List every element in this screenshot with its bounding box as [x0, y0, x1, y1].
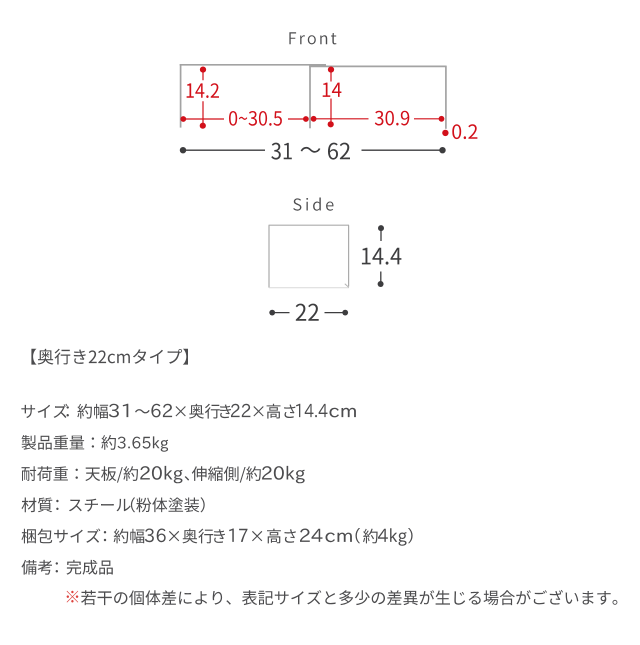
dimension 0~30.5 line [183, 118, 306, 120]
wave dash [301, 147, 321, 153]
title Front [289, 32, 336, 44]
note asterisk [67, 591, 79, 603]
spec load [22, 466, 139, 482]
dimension text 0.2 [452, 124, 477, 139]
side outline left edge [268, 225, 270, 287]
side outline bottom-right tick [345, 284, 349, 288]
dimension 14.2 leader line [202, 70, 204, 126]
dimension 0.2 dot [442, 130, 448, 136]
dimension 14.4 leader line [380, 228, 382, 284]
spec material [22, 498, 53, 513]
spec note [22, 560, 53, 575]
side outline right edge [348, 225, 350, 286]
dimension text 14.2 [187, 83, 219, 98]
front outline: middle leg [309, 66, 311, 129]
dimension text 22 [296, 304, 319, 321]
overall width dimension line 31~62 [183, 149, 443, 151]
spec weight [22, 435, 116, 450]
dimension 22 end dots [269, 310, 275, 316]
side outline faint bottom edge [269, 287, 349, 289]
dimension text 62 [328, 143, 350, 160]
dimension 22 line [272, 312, 345, 314]
spec package [22, 529, 101, 544]
dimension text 31 [271, 143, 292, 160]
front outline: right shelf top edge [309, 65, 446, 67]
note text [81, 590, 617, 605]
front outline: left shelf top edge [180, 64, 326, 66]
heading 奥行き22cmタイプ [31, 349, 188, 365]
title Side [293, 198, 333, 211]
dimension 14 leader line [330, 70, 332, 125]
dimension 30.9 end dots [311, 116, 317, 122]
dimension text 0~30.5 [229, 111, 282, 126]
dimension text 14 [323, 83, 342, 97]
overall width end dots [180, 147, 186, 153]
dimension 30.9 line [314, 118, 442, 120]
dimension text 30.9 [375, 111, 410, 126]
front outline: right leg [445, 66, 447, 129]
front outline: left leg [180, 64, 182, 128]
dimension 14 end dots [328, 67, 334, 73]
side outline top edge [269, 224, 349, 226]
dimension text 14.4 [362, 248, 402, 265]
dimension 0~30.5 end dots [180, 116, 186, 122]
dimension 14.4 end dots [378, 225, 384, 231]
dimension 14.2 end dots [200, 67, 206, 73]
spec size [21, 404, 67, 418]
